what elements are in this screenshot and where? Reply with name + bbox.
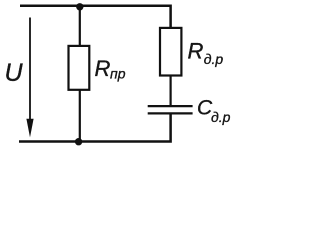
svg-text:R: R — [188, 39, 204, 64]
svg-text:пр: пр — [110, 65, 126, 81]
svg-text:R: R — [95, 56, 111, 81]
svg-text:U: U — [5, 59, 24, 87]
svg-text:д.р: д.р — [211, 109, 231, 125]
svg-text:д.р: д.р — [204, 51, 224, 67]
